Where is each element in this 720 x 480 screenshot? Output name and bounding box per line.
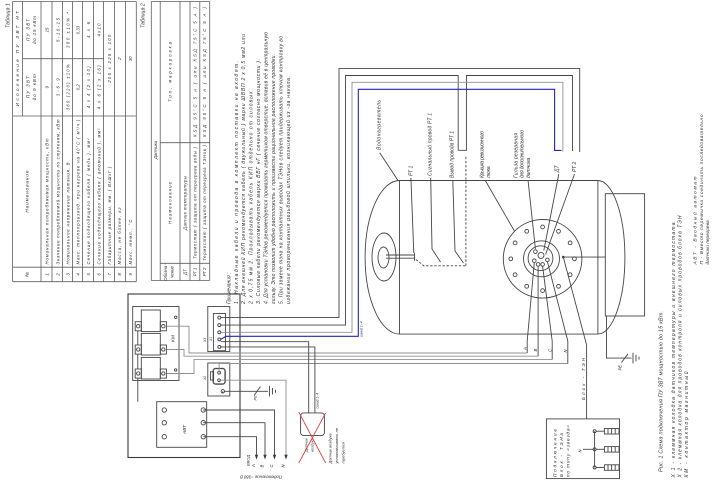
control unit enclosure bbox=[128, 294, 240, 458]
wire X1 pin3 riser and top run to DT (grey) bbox=[221, 82, 563, 332]
svg-text:устанавливать не: устанавливать не bbox=[334, 427, 339, 464]
svg-text:Подключение ~380 В: Подключение ~380 В bbox=[240, 475, 282, 480]
svg-text:чение: чение bbox=[170, 266, 175, 278]
svg-text:205 х 225 х 100: 205 х 225 х 100 bbox=[107, 34, 112, 84]
PE right disconnect tick bbox=[622, 354, 629, 363]
terminal block X2 outer bbox=[208, 363, 230, 396]
wire X1 pin5a to air sensor bbox=[221, 342, 309, 413]
svg-text:Термостат ( защита от перегре: Термостат ( защита от перегрева воды ) bbox=[192, 146, 197, 259]
svg-text:гильзу. Это позволит удобно ра: гильзу. Это позволит удобно расположить … bbox=[271, 54, 277, 304]
svg-text:N: N bbox=[563, 349, 568, 353]
svg-text:1: 1 bbox=[45, 273, 50, 276]
svg-text:А: А bbox=[522, 347, 527, 351]
hub center gland bbox=[538, 252, 544, 258]
circuit breaker ABT body bbox=[157, 402, 207, 448]
svg-text:С: С bbox=[269, 464, 274, 468]
leader RT1 bbox=[411, 178, 414, 253]
contactor KM relay 2 bbox=[135, 333, 166, 355]
svg-text:N: N bbox=[281, 464, 286, 468]
svg-text:по типу «звезда»: по типу «звезда» bbox=[566, 425, 571, 477]
wire ABT mid to B arrow bbox=[203, 423, 265, 456]
svg-text:С: С bbox=[547, 348, 552, 352]
wire TEN pin to N bbox=[547, 262, 567, 341]
svg-text:Примечания :: Примечания : bbox=[226, 272, 232, 304]
terminal block X1 outer bbox=[208, 307, 230, 352]
svg-text:9: 9 bbox=[128, 273, 133, 276]
svg-text:Таблица 1: Таблица 1 bbox=[6, 3, 12, 28]
TEN stud pins bbox=[533, 250, 550, 266]
svg-text:В: В bbox=[533, 349, 538, 352]
svg-text:датчика: датчика bbox=[526, 158, 532, 178]
svg-text:РЕ: РЕ bbox=[253, 395, 258, 401]
svg-text:до 9 кВт: до 9 кВт bbox=[32, 74, 37, 100]
star N stub bbox=[583, 448, 593, 450]
svg-text:№: № bbox=[25, 272, 30, 277]
wire dot to TEN block bbox=[563, 256, 605, 258]
wire TEN block dot to detail box bbox=[563, 257, 586, 419]
flange hub circle bbox=[528, 246, 553, 271]
wire TEN pin to C bbox=[543, 266, 553, 341]
wire ABT top to C arrow bbox=[203, 410, 274, 455]
RT1 pocket port ellipses bbox=[372, 233, 396, 281]
svg-text:4х10: 4х10 bbox=[97, 23, 102, 37]
svg-text:КМ - контактор магнитный: КМ - контактор магнитный bbox=[683, 371, 690, 477]
svg-text:люка: люка bbox=[486, 166, 492, 179]
PE left disconnect tick bbox=[254, 387, 261, 396]
svg-text:15: 15 bbox=[45, 27, 50, 32]
air sensor box (crossed out) bbox=[301, 413, 325, 436]
svg-text:Сигнальный провод РТ 1: Сигнальный провод РТ 1 bbox=[427, 113, 434, 176]
svg-text:Обозна -: Обозна - bbox=[163, 263, 168, 281]
svg-text:Значение потребляемой мощности: Значение потребляемой мощности по ступен… bbox=[55, 119, 60, 264]
PE left ground bars bbox=[270, 386, 276, 397]
svg-text:Наименование: Наименование bbox=[25, 170, 30, 212]
svg-text:5: 5 bbox=[86, 273, 91, 276]
KM plate mounting holes bbox=[175, 316, 177, 318]
svg-text:Исполнение ПУ ЗВТ НТ: Исполнение ПУ ЗВТ НТ bbox=[15, 10, 20, 106]
wire KM relay3 output to bus C bbox=[166, 359, 552, 373]
svg-text:Термостат ( защита от перегре: Термостат ( защита от перегрева ТЭНов ) bbox=[202, 144, 207, 261]
input phase labels bbox=[246, 455, 286, 468]
table 1 row labels bbox=[45, 119, 134, 265]
heater element 2 bbox=[596, 447, 619, 453]
PE right ground bars bbox=[633, 353, 639, 364]
TEN block inside tank bbox=[605, 194, 644, 316]
svg-text:380 (220) ±10%: 380 (220) ±10% bbox=[66, 64, 71, 110]
svg-text:9: 9 bbox=[45, 85, 50, 88]
svg-text:КМ: КМ bbox=[171, 335, 177, 342]
svg-text:2 х 0,75 мм 2. Прокладывать к: 2 х 0,75 мм 2. Прокладывать кабель КИП о… bbox=[249, 89, 255, 305]
svg-text:Блок - ТЭН: Блок - ТЭН bbox=[581, 357, 586, 400]
input arrow C bbox=[273, 455, 276, 460]
svg-text:ВВОД: ВВОД bbox=[246, 455, 251, 466]
red note text bbox=[328, 427, 346, 464]
svg-text:Датчики: Датчики bbox=[153, 140, 158, 160]
TEN phase labels bbox=[522, 347, 568, 353]
svg-text:Датчик температуры: Датчик температуры bbox=[183, 175, 188, 231]
svg-text:4 х 4 (2 х 10): 4 х 4 (2 х 10) bbox=[86, 66, 91, 109]
table 2 frame bbox=[151, 2, 209, 281]
input arrow N bbox=[284, 455, 287, 460]
wire bus B rise to TEN pin B bbox=[537, 341, 539, 356]
input arrow B bbox=[263, 455, 266, 460]
svg-text:для дополнительного: для дополнительного bbox=[520, 130, 526, 178]
notes text block bbox=[226, 32, 291, 305]
heater element 3 bbox=[596, 465, 619, 471]
svg-text:ПУ ЗВТ: ПУ ЗВТ bbox=[26, 18, 31, 41]
svg-text:380 ±10% *: 380 ±10% * bbox=[66, 12, 71, 48]
svg-text:Макс. теплопроизвод. при нагр: Макс. теплопроизвод. при нагреве на 40°С… bbox=[76, 119, 81, 265]
leader DT bbox=[544, 174, 559, 251]
svg-text:0,33: 0,33 bbox=[76, 25, 81, 34]
svg-text:1. Накладные кабели и провода: 1. Накладные кабели и провода в комплект… bbox=[234, 61, 240, 304]
svg-text:2. Для внешней КИП рекомендует: 2. Для внешней КИП рекомендуется кабель … bbox=[240, 34, 247, 305]
svg-text:Сечение подводящего кабеля (: Сечение подводящего кабеля ( медь ), мм² bbox=[86, 138, 91, 265]
svg-text:30: 30 bbox=[128, 56, 133, 61]
hidden wire inside tank (dashed) bbox=[416, 155, 466, 265]
star terminals bbox=[593, 430, 596, 469]
RT1 capillary tube bbox=[386, 253, 415, 261]
wire TEN pin to B bbox=[537, 266, 539, 341]
svg-text:4 х 6 (2 х 16): 4 х 6 (2 х 16) bbox=[97, 65, 102, 110]
star point wire bbox=[594, 431, 596, 467]
svg-text:Подключение: Подключение bbox=[552, 429, 557, 477]
svg-text:РТ 2: РТ 2 bbox=[572, 162, 578, 172]
svg-text:АВТ: АВТ bbox=[182, 424, 188, 435]
leader signal wire bbox=[431, 178, 441, 262]
X1 pins bbox=[218, 316, 221, 348]
svg-text:синий 1- 4: синий 1- 4 bbox=[316, 393, 320, 409]
svg-text:РТ 2: РТ 2 bbox=[202, 267, 207, 276]
svg-text:Гильза резервная: Гильза резервная bbox=[513, 133, 519, 178]
svg-text:ДТ: ДТ bbox=[183, 269, 188, 276]
PE ground right wire bbox=[607, 316, 632, 358]
wire RT1 second terminal to RT2 (series link) bbox=[458, 76, 572, 152]
svg-text:АВТ - Вводный автомат: АВТ - Вводный автомат bbox=[692, 177, 699, 266]
TEN detail box caption bbox=[552, 425, 570, 477]
svg-text:Х1: Х1 bbox=[209, 337, 213, 342]
svg-text:4 х 6: 4 х 6 bbox=[86, 21, 91, 38]
wire X2 pin1 to bus N bbox=[219, 364, 568, 373]
svg-text:до 15 кВт: до 15 кВт bbox=[32, 16, 37, 44]
wire TEN pin to A bbox=[527, 263, 534, 342]
svg-text:3: 3 bbox=[66, 273, 71, 276]
svg-text:Рис. 1 Схема подключения ПУ: Рис. 1 Схема подключения ПУ ЗВТ мощность… bbox=[659, 311, 665, 472]
wire X1 pin2 riser and top run to RT1 bbox=[221, 76, 459, 326]
svg-text:Х 1 - клеммная колодка датчи: Х 1 - клеммная колодка датчиков температ… bbox=[671, 222, 677, 478]
svg-text:8: 8 bbox=[117, 273, 122, 276]
svg-text:П - Вместо перемычки соедини: П - Вместо перемычки соединить последова… bbox=[699, 114, 705, 264]
ABT terminals bbox=[162, 408, 205, 439]
svg-text:Таблица 2: Таблица 2 bbox=[141, 3, 147, 28]
svg-text:Номинальная потребляемая мощн: Номинальная потребляемая мощность, кВт bbox=[45, 138, 50, 264]
terminal block X1 inner bbox=[213, 314, 225, 351]
svg-text:КSД 95°С 5 А ( или КSД 75°С 5: КSД 95°С 5 А ( или КSД 75°С 5 А ) bbox=[192, 6, 197, 137]
svg-text:Сечение подводящего кабеля (: Сечение подводящего кабеля ( алюминий ),… bbox=[97, 128, 102, 265]
PE ground left wire bbox=[223, 391, 268, 393]
svg-text:А: А bbox=[251, 464, 256, 468]
svg-text:Крышка ревизионного: Крышка ревизионного bbox=[479, 131, 485, 178]
svg-text:датчики перегрева: датчики перегрева bbox=[705, 220, 711, 264]
contactor KM mounting plate bbox=[133, 307, 179, 381]
X2 pins bbox=[218, 371, 221, 381]
svg-text:6: 6 bbox=[97, 273, 102, 276]
svg-text:Габаритные размеры, мм. ( ВхШ: Габаритные размеры, мм. ( ВхШхГ ) bbox=[107, 166, 112, 265]
svg-text:4. Для установки ТЭНов рекомен: 4. Для установки ТЭНов рекомендуется про… bbox=[264, 32, 270, 304]
svg-text:Х3: Х3 bbox=[203, 338, 207, 343]
svg-text:Датчик воздуха: Датчик воздуха bbox=[328, 433, 333, 465]
flange inner circle bbox=[524, 241, 560, 277]
flange bolt circle holes bbox=[509, 225, 576, 292]
wire KM relay2 output to bus B bbox=[166, 350, 538, 357]
leader spare sleeve bbox=[528, 180, 535, 249]
leader wire outlet bbox=[453, 180, 464, 263]
svg-text:КSД 95°С 5 А ( или КSД 75°С 5: КSД 95°С 5 А ( или КSД 75°С 5 А ) bbox=[202, 6, 207, 137]
terminal block X2 connector bbox=[210, 369, 225, 385]
svg-text:избежание проворачивания резьб: избежание проворачивания резьбовой шпиль… bbox=[285, 76, 292, 304]
table 1 values column "до 15 кВт" bbox=[45, 12, 134, 84]
svg-text:В: В bbox=[260, 465, 265, 468]
svg-text:Блок - ТЭНа: Блок - ТЭНа bbox=[559, 433, 564, 477]
svg-text:Водонагреватель: Водонагреватель bbox=[377, 100, 383, 150]
KM coil chain wires bbox=[137, 331, 139, 402]
wire X1 pin4 blue run to DT bbox=[221, 89, 562, 339]
wire KM relay1 output to bus A bbox=[166, 326, 527, 353]
X2 PE terminal bbox=[221, 390, 224, 393]
leader RT2 bbox=[546, 174, 575, 254]
svg-text:ПУ ЗВТ: ПУ ЗВТ bbox=[26, 75, 31, 98]
svg-text:Масса, не более, кг: Масса, не более, кг bbox=[117, 207, 122, 265]
svg-text:3-6-9: 3-6-9 bbox=[55, 78, 60, 97]
flange outer circle bbox=[503, 219, 582, 298]
svg-text:РЕ: РЕ bbox=[618, 365, 623, 371]
svg-text:3. Силовые кабели рекомендуетс: 3. Силовые кабели рекомендуется марки ВВ… bbox=[256, 59, 262, 304]
wire bus C rise to TEN pin C bbox=[551, 341, 553, 359]
wire bus A rise to TEN pin A bbox=[526, 341, 528, 353]
wire bus N rise to TEN pin N bbox=[567, 341, 569, 364]
TEN block reference dot bbox=[562, 256, 565, 259]
wire X2 pin2 to N input arrow bbox=[219, 380, 286, 455]
svg-text:Тип, маркировка: Тип, маркировка bbox=[168, 41, 173, 102]
svg-text:Наименование: Наименование bbox=[168, 181, 173, 224]
svg-text:ДТ: ДТ bbox=[555, 164, 561, 173]
svg-text:7: 7 bbox=[107, 273, 112, 276]
table 1 row numbers bbox=[45, 273, 134, 277]
svg-text:0,2: 0,2 bbox=[76, 84, 81, 91]
contactor KM relay 3 bbox=[135, 357, 166, 379]
svg-text:Х 2 - клеммная колодка для п: Х 2 - клеммная колодка для проводов конт… bbox=[678, 215, 684, 478]
tank body bbox=[365, 181, 625, 335]
table 1 values column "до 9 кВт" bbox=[45, 64, 102, 110]
table 1 header texts bbox=[15, 10, 37, 277]
TEN detail box bbox=[546, 419, 619, 479]
svg-text:Вывод провода РТ 1: Вывод провода РТ 1 bbox=[450, 131, 456, 178]
svg-text:синий 1- 4: синий 1- 4 bbox=[360, 321, 364, 337]
wire X1 pin1 riser and top run to RT2 bbox=[221, 69, 580, 318]
svg-text:требуется: требуется bbox=[341, 441, 346, 463]
svg-text:2: 2 bbox=[55, 273, 60, 277]
table 2 texts bbox=[153, 6, 207, 280]
svg-text:РТ 1: РТ 1 bbox=[192, 267, 197, 276]
red cross over air sensor bbox=[299, 412, 326, 463]
svg-text:2: 2 bbox=[117, 57, 122, 61]
leader to tank bbox=[380, 153, 398, 181]
svg-text:Х2: Х2 bbox=[203, 376, 207, 381]
svg-text:4: 4 bbox=[76, 273, 81, 276]
svg-text:5. При замене тэна на контактн: 5. При замене тэна на контактных выводах… bbox=[278, 36, 284, 304]
input arrow A bbox=[255, 455, 258, 460]
svg-text:5-10-15: 5-10-15 bbox=[55, 17, 60, 42]
wire X1 pin5b to air sensor bbox=[221, 347, 315, 413]
svg-text:Номинальное напряжение питани: Номинальное напряжение питания, В bbox=[66, 162, 71, 264]
table 1 frame bbox=[13, 2, 137, 282]
heater element 1 bbox=[596, 429, 619, 435]
wire ABT bottom to A arrow bbox=[203, 437, 256, 456]
contactor KM relay 1 bbox=[135, 310, 166, 332]
leader hatch cover bbox=[485, 180, 515, 231]
svg-text:N: N bbox=[578, 449, 583, 453]
svg-text:РТ 1: РТ 1 bbox=[408, 166, 414, 176]
svg-text:Макс. темп., °С: Макс. темп., °С bbox=[128, 219, 133, 265]
